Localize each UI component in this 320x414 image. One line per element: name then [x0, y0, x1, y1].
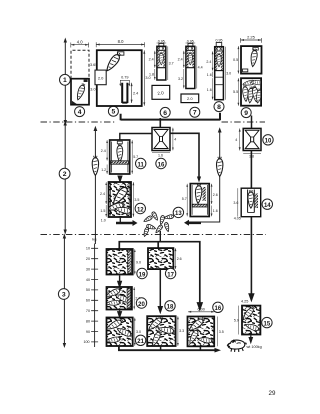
- unit 12 right dim: [133, 182, 140, 217]
- tower 8 cap: [216, 43, 222, 47]
- unit 11 washer: [110, 140, 130, 174]
- process circle 16b: [213, 302, 223, 312]
- process circle 15: [262, 317, 272, 327]
- unit 18 right dim: [177, 316, 184, 345]
- sorting pile of carrots: [143, 211, 174, 237]
- unit 19 right dim: [134, 249, 141, 274]
- svg-text:5.7: 5.7: [133, 155, 138, 159]
- wire: collection bus under section 1: [121, 113, 220, 121]
- unit 5 side hopper (2.0): [95, 70, 106, 85]
- tower 6 hopper box 2.0: [152, 85, 170, 99]
- svg-text:13: 13: [175, 211, 182, 217]
- unit 15 left dim: [234, 306, 239, 335]
- svg-text:6: 6: [163, 110, 167, 117]
- stage circle 2: [59, 168, 70, 179]
- svg-text:6.00: 6.00: [198, 308, 205, 312]
- svg-text:2.4: 2.4: [100, 192, 105, 196]
- unit 12 left dims: [100, 182, 107, 222]
- tower 8 body: [215, 47, 224, 100]
- unit 11 screen band: [111, 161, 129, 164]
- unit 4 content carrot: [75, 83, 86, 101]
- svg-text:2.0: 2.0: [187, 96, 193, 101]
- svg-text:1: 1: [63, 77, 67, 84]
- svg-text:11: 11: [138, 162, 145, 168]
- svg-text:2.6: 2.6: [177, 257, 182, 261]
- svg-text:2.4: 2.4: [133, 92, 138, 96]
- tower 6 top compartment: [157, 47, 166, 50]
- svg-text:0.95: 0.95: [216, 39, 223, 43]
- svg-text:wt 100kg: wt 100kg: [247, 345, 262, 349]
- svg-text:1.8: 1.8: [149, 73, 154, 77]
- svg-text:7: 7: [193, 110, 197, 117]
- svg-text:10: 10: [265, 139, 272, 145]
- unit 21 bin: [107, 318, 133, 347]
- unit 16 bottom bin: [188, 317, 215, 347]
- svg-text:2.4: 2.4: [178, 58, 183, 62]
- unit 16 right dim: [218, 317, 224, 347]
- unit 14 side hatch: [255, 194, 258, 209]
- svg-text:5: 5: [112, 109, 116, 116]
- svg-text:19: 19: [139, 272, 146, 278]
- unit 19 bin: [107, 249, 133, 275]
- unit 9 lower box: [241, 78, 261, 106]
- wire: unit 17 to 18: [159, 269, 163, 312]
- svg-text:3.6: 3.6: [233, 201, 238, 205]
- process circle 14: [262, 199, 272, 209]
- svg-text:17: 17: [167, 272, 174, 278]
- dimension 3.0 right of unit 5: [143, 50, 150, 105]
- process circle 11: [136, 158, 146, 168]
- wire: section 3 distribution bus: [119, 242, 202, 309]
- process circle 9: [241, 108, 251, 118]
- svg-text:3.0: 3.0: [90, 88, 95, 92]
- tower 7 top compartment: [186, 47, 195, 50]
- svg-text:4: 4: [78, 109, 82, 116]
- svg-text:3.3: 3.3: [179, 329, 184, 333]
- process circle 21: [135, 335, 145, 345]
- svg-text:30: 30: [86, 267, 90, 271]
- svg-text:8.0: 8.0: [118, 39, 124, 44]
- svg-text:70: 70: [86, 309, 90, 313]
- tower 8 carrot chamber: [215, 51, 224, 70]
- unit 4 corner marks: [84, 80, 88, 82]
- arrowhead into unit 13: [197, 177, 201, 183]
- svg-text:3.0: 3.0: [145, 76, 150, 80]
- unit 10 left dim: [235, 128, 240, 150]
- svg-text:90: 90: [86, 330, 90, 334]
- process circle 4: [75, 107, 85, 117]
- svg-text:3.2: 3.2: [178, 77, 183, 81]
- svg-text:14: 14: [264, 203, 271, 209]
- svg-text:2.4: 2.4: [206, 60, 211, 64]
- unit 21 right dim: [134, 318, 141, 346]
- svg-text:3.0: 3.0: [226, 72, 231, 76]
- unit 17 right dim: [175, 248, 182, 269]
- dimension 8.0 above unit 5: [96, 39, 144, 47]
- unit 18 bin: [147, 316, 175, 346]
- process circle 18: [165, 301, 175, 311]
- wire: unit 14 to unit 15: [249, 217, 253, 300]
- tower 8 lower dividers: [215, 77, 224, 85]
- unit 13 left dim: [182, 184, 188, 217]
- svg-text:16: 16: [158, 162, 165, 168]
- unit 13 grader: [190, 184, 209, 217]
- unit 4 bin (solid box): [71, 79, 89, 105]
- process circle 5: [108, 106, 118, 116]
- dimension 1.6 under weigher 16: [152, 153, 170, 158]
- tower 6 body: [157, 46, 166, 80]
- dimension 0.79 in unit 5: [119, 75, 130, 86]
- process circle 17: [165, 268, 175, 278]
- process circle 12: [135, 203, 145, 213]
- process circle 8: [214, 102, 224, 112]
- unit 20 bin: [107, 287, 132, 310]
- unit 14 left dim: [233, 188, 238, 217]
- process circle 10: [263, 135, 273, 145]
- tower 7 cap: [188, 44, 193, 47]
- svg-text:4.05: 4.05: [234, 217, 241, 221]
- section boundary line B (dash-dot): [41, 234, 267, 236]
- arrow unit 15 discharge: [249, 336, 252, 343]
- unit 20 right dim: [133, 287, 140, 309]
- svg-text:2.0: 2.0: [157, 90, 164, 96]
- dimension 2.25 above unit 9: [241, 35, 262, 43]
- arrow unit 11 to 12: [118, 176, 121, 182]
- svg-text:5.0: 5.0: [234, 319, 239, 323]
- elevator line with carrot (center): [201, 127, 223, 222]
- stage line 1: [64, 38, 67, 126]
- unit 11 left dims: [101, 140, 108, 174]
- tower 8 top compartment: [215, 47, 224, 51]
- unit 11 right dim: [131, 140, 138, 174]
- unit 13 screen band: [192, 204, 207, 207]
- tower 7 carrot chamber: [186, 51, 195, 68]
- svg-text:3: 3: [62, 291, 66, 298]
- dimension 0.95 above tower 7: [186, 39, 196, 43]
- unit 15 bin: [242, 306, 260, 335]
- stage line 3: [63, 234, 66, 349]
- unit 17 bin: [148, 248, 173, 269]
- svg-text:1.0: 1.0: [101, 219, 106, 223]
- svg-text:4: 4: [235, 138, 237, 142]
- svg-text:2.4: 2.4: [101, 149, 106, 153]
- svg-text:3.0: 3.0: [136, 330, 141, 334]
- tower 6 carrot chamber: [157, 51, 166, 68]
- unit 16 bin carrots: [187, 316, 214, 345]
- thick arrow from 13 to sorting pile: [184, 220, 201, 226]
- unit 9 upper carrot: [250, 48, 259, 68]
- tower 6 left dims: [149, 51, 156, 80]
- tower 7 left dims: [178, 51, 185, 89]
- stage circle 3: [58, 289, 69, 300]
- wire: bus drop to weigher 16: [159, 118, 161, 128]
- unit 20 bin carrots: [105, 287, 131, 306]
- tower 6 cap: [159, 44, 164, 47]
- svg-text:50: 50: [86, 288, 90, 292]
- unit 9 corner block: [243, 69, 248, 72]
- process circle 19: [137, 268, 147, 278]
- svg-text:9: 9: [244, 110, 248, 117]
- unit 15 bin carrots: [241, 305, 261, 332]
- unit 5 hanging carrot: [104, 51, 124, 73]
- unit 9 left dims: [233, 46, 239, 106]
- weigher 16 right dim: [172, 128, 176, 151]
- svg-text:16: 16: [215, 306, 222, 312]
- svg-text:1.2: 1.2: [101, 168, 106, 172]
- svg-text:4.4: 4.4: [198, 66, 203, 70]
- svg-text:9.0: 9.0: [136, 261, 141, 265]
- svg-text:60: 60: [86, 299, 90, 303]
- wire: weigher 16 to unit 11: [120, 134, 152, 140]
- dimension 6.00 above unit 16: [188, 308, 214, 313]
- dimension 1.8 under unit 10: [243, 154, 261, 159]
- unit 18 bin carrots: [147, 315, 176, 347]
- svg-text:15: 15: [264, 321, 271, 327]
- svg-text:4.0: 4.0: [77, 39, 83, 44]
- svg-text:2.6: 2.6: [213, 193, 218, 197]
- unit 14 chopper: [241, 188, 261, 217]
- process circle 16: [156, 158, 166, 168]
- dimension 4.0 above unit 4: [71, 39, 89, 47]
- unit 13 right dims: [211, 184, 218, 217]
- unit 21 bin carrots: [105, 318, 133, 344]
- process circle 20: [136, 298, 146, 308]
- svg-text:10: 10: [86, 247, 90, 251]
- stage circle 1: [60, 74, 71, 85]
- unit 10 weigher (hourglass box): [243, 128, 261, 150]
- wire: weigher 16 to unit 13: [170, 133, 199, 178]
- process circle 13: [173, 207, 183, 217]
- svg-text:4: 4: [174, 138, 176, 142]
- wire: circle 9 drop to unit 10: [251, 116, 253, 129]
- unit 9 upper box: [241, 46, 262, 74]
- wire: pile drop to section 3 bus: [159, 231, 161, 242]
- svg-text:3.7: 3.7: [169, 62, 174, 66]
- svg-text:40: 40: [86, 278, 90, 282]
- unit 12 big carrots: [106, 183, 133, 214]
- svg-text:2.4: 2.4: [149, 58, 154, 62]
- unit 12 inspection bin: [109, 182, 131, 217]
- tower 6 right dim: [168, 46, 174, 80]
- svg-text:100: 100: [83, 340, 89, 344]
- wire: unit 12 discharge: [119, 217, 121, 223]
- svg-text:20: 20: [138, 302, 145, 308]
- unit 13 carrot: [195, 183, 206, 203]
- svg-text:8: 8: [217, 104, 221, 111]
- svg-text:1.6: 1.6: [213, 209, 218, 213]
- tower 8 left dims: [206, 51, 213, 99]
- svg-text:20: 20: [86, 257, 90, 261]
- svg-text:0.5: 0.5: [233, 58, 238, 62]
- dimension 0.95 above tower 6: [157, 39, 167, 43]
- unit 11 carrot: [117, 141, 123, 161]
- svg-text:80: 80: [86, 319, 90, 323]
- tower 7 hopper box 2.0: [181, 94, 199, 103]
- svg-text:21: 21: [137, 339, 144, 345]
- bottom bus arrowhead: [215, 348, 222, 353]
- svg-text:2.0: 2.0: [98, 76, 104, 81]
- arrow unit 20 to 21: [118, 311, 121, 317]
- svg-text:1.6: 1.6: [158, 154, 163, 158]
- feeder line with carrot (left): [92, 126, 98, 244]
- svg-text:kg: kg: [92, 237, 96, 242]
- svg-text:5.7: 5.7: [182, 197, 187, 201]
- svg-text:0.79: 0.79: [121, 75, 128, 79]
- tower 7 right dim: [197, 46, 203, 88]
- unit 9 lower carrots: [242, 79, 264, 103]
- thick arrow from 12 to sorting pile: [116, 220, 138, 226]
- section boundary line A (dash-dot): [41, 121, 266, 123]
- svg-text:1.6: 1.6: [207, 73, 212, 77]
- kg scale ruler: [83, 237, 98, 348]
- weigher 16 (hourglass box): [152, 128, 170, 151]
- pig drawing: [227, 340, 246, 352]
- svg-text:1.6: 1.6: [207, 88, 212, 92]
- wire: unit 18 drop to bottom bus: [160, 346, 162, 350]
- tower 7 body: [186, 46, 195, 88]
- unit 5 mixing box: [97, 50, 142, 106]
- svg-text:29: 29: [269, 390, 276, 397]
- stage line 2: [64, 121, 67, 235]
- svg-text:2.25: 2.25: [247, 35, 256, 40]
- svg-text:3.5: 3.5: [219, 330, 224, 334]
- svg-text:1.5: 1.5: [100, 209, 105, 213]
- svg-text:0.95: 0.95: [158, 39, 165, 43]
- svg-text:12: 12: [137, 207, 144, 213]
- arrow unit 19 to 20: [118, 276, 121, 287]
- arrowhead into unit 16: [198, 304, 202, 310]
- svg-text:0.95: 0.95: [187, 39, 194, 43]
- unit 4 bin (dashed upper part): [71, 50, 89, 78]
- tower 8 right dim: [225, 47, 231, 100]
- dimension 2.4 in unit 5: [131, 83, 139, 103]
- wire: unit 16 drop to bottom bus: [199, 346, 201, 350]
- wire: unit 10 to unit 14: [250, 151, 252, 189]
- svg-text:3.5: 3.5: [134, 198, 139, 202]
- wire: bottom feed bus with arrow: [119, 346, 216, 350]
- unit 5 inner trough: [122, 83, 127, 103]
- svg-text:4.25: 4.25: [241, 300, 248, 304]
- process circle 6: [160, 107, 170, 117]
- svg-text:2: 2: [63, 171, 67, 178]
- unit 14 carrot: [248, 190, 254, 208]
- svg-text:5.5: 5.5: [233, 90, 238, 94]
- svg-text:18: 18: [167, 305, 174, 311]
- process circle 7: [190, 107, 200, 117]
